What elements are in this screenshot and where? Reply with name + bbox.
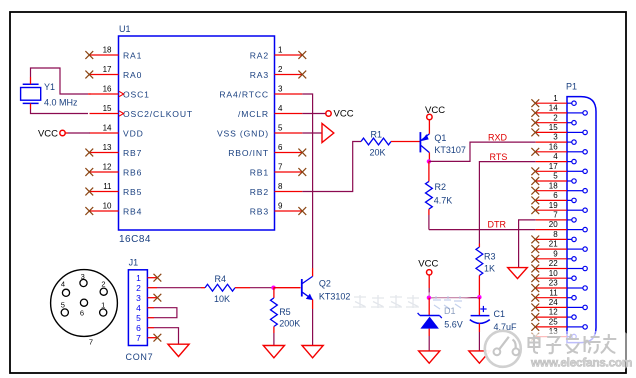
svg-text:www.elecfans.com: www.elecfans.com xyxy=(530,356,632,370)
OSC2 pin edge chevron xyxy=(119,111,124,116)
junction Q1 collector node xyxy=(427,159,431,163)
svg-text:7: 7 xyxy=(89,337,93,346)
ground below J1 xyxy=(168,344,189,356)
ground below Q2 xyxy=(302,346,323,358)
P1 pin 1 circle xyxy=(572,101,576,105)
P1 pin 3 circle xyxy=(572,140,576,144)
zener diode D1 5.6V xyxy=(420,315,440,317)
crystal Y1 bottom plate xyxy=(23,102,39,104)
svg-text:18: 18 xyxy=(103,45,112,54)
resistor R3 xyxy=(476,247,483,276)
svg-text:1: 1 xyxy=(136,273,141,283)
svg-text:VCC: VCC xyxy=(38,128,58,139)
svg-text:1: 1 xyxy=(278,45,283,54)
crystal Y1 top plate xyxy=(23,83,39,85)
OSC1 pin edge chevron xyxy=(119,91,124,96)
U1 pin 10 RB4 wire xyxy=(90,210,119,212)
svg-text:2: 2 xyxy=(553,113,558,122)
U1 pin 8 RB2 wire xyxy=(275,191,303,193)
U1 pin 9 RB3 wire xyxy=(275,210,303,212)
no-connect X on P1 pin 1 xyxy=(531,99,539,107)
svg-text:RB4: RB4 xyxy=(123,206,142,216)
P1 pin 8 wire xyxy=(536,238,567,240)
wire C1 to ground xyxy=(478,323,480,332)
wire crystal bottom to OSC2/CLKOUT xyxy=(30,103,32,109)
svg-text:4: 4 xyxy=(278,104,283,113)
svg-text:6: 6 xyxy=(553,191,558,200)
svg-text:P1: P1 xyxy=(566,82,577,92)
svg-text:21: 21 xyxy=(549,240,558,249)
wire P1 pin4 RTS down to R3 xyxy=(479,162,535,244)
svg-text:5: 5 xyxy=(553,172,558,181)
P1 pin 7 wire xyxy=(536,219,567,221)
no-connect X on P1 pin 6 xyxy=(531,197,539,205)
svg-text:15: 15 xyxy=(549,123,558,132)
wire crystal top to OSC1 xyxy=(30,77,32,84)
svg-text:Q1: Q1 xyxy=(434,133,446,143)
svg-text:6: 6 xyxy=(80,308,84,317)
svg-text:RB5: RB5 xyxy=(123,187,142,197)
P1 pin 15 wire xyxy=(536,131,567,133)
decorative faint watermark (middle) xyxy=(357,291,475,315)
svg-text:17: 17 xyxy=(103,65,112,74)
power port VCC (VDD) xyxy=(60,130,65,135)
no-connect X on P1 pin 12 xyxy=(531,313,539,321)
svg-text:1K: 1K xyxy=(484,263,495,273)
svg-text:2: 2 xyxy=(101,279,105,288)
no-connect X on U1 pin 18 xyxy=(85,51,93,59)
svg-text:R5: R5 xyxy=(279,307,291,317)
P1 pin 21 wire xyxy=(536,248,567,250)
svg-text:R1: R1 xyxy=(371,129,383,139)
P1 pin 1 wire xyxy=(536,102,567,104)
P1 pin 24 circle xyxy=(583,305,587,309)
DIN pin 3 xyxy=(80,279,87,286)
svg-text:RB7: RB7 xyxy=(123,148,142,158)
no-connect X on U1 pin 2 xyxy=(298,71,306,79)
P1 pin 21 circle xyxy=(583,247,587,251)
svg-text:10K: 10K xyxy=(214,294,230,304)
no-connect X on J1 pin 3 xyxy=(154,294,162,302)
U1 pin 16 OSC1 wire xyxy=(90,93,119,95)
svg-text:23: 23 xyxy=(549,279,558,288)
no-connect X on J1 pin 1 xyxy=(154,274,162,282)
wire VCC down to zener node xyxy=(428,275,430,288)
svg-text:RB3: RB3 xyxy=(250,206,269,216)
decorative watermark logo xyxy=(485,331,521,367)
ground below C1 xyxy=(469,351,490,363)
wire R3 to C1 node xyxy=(478,276,480,298)
no-connect X on J1 pin 7 xyxy=(154,334,162,342)
P1 pin 18 wire xyxy=(536,190,567,192)
svg-text:11: 11 xyxy=(549,288,558,297)
wire R2 to DTR line xyxy=(428,209,430,215)
wire node to zener cathode xyxy=(428,298,430,316)
svg-text:2: 2 xyxy=(136,283,141,293)
svg-text:VSS (GND): VSS (GND) xyxy=(217,128,269,138)
U1 pin 7 RB1 wire xyxy=(275,171,303,173)
svg-text:6: 6 xyxy=(278,143,283,152)
svg-text:C1: C1 xyxy=(494,309,506,319)
wire pin5 VSS to power arrow xyxy=(302,132,322,134)
svg-text:RA0: RA0 xyxy=(123,70,142,80)
P1 pin 25 wire xyxy=(536,326,567,328)
no-connect X on P1 pin 13 xyxy=(531,333,539,341)
svg-text:7: 7 xyxy=(278,162,283,171)
svg-text:10: 10 xyxy=(549,269,558,278)
J1 pin 7 stub xyxy=(147,337,157,339)
J1 pin 1 stub xyxy=(147,277,157,279)
no-connect X on P1 pin 17 xyxy=(531,167,539,175)
P1 pin 2 circle xyxy=(572,121,576,125)
no-connect X on P1 pin 18 xyxy=(531,187,539,195)
svg-text:5: 5 xyxy=(278,123,283,132)
svg-text:RA4/RTCC: RA4/RTCC xyxy=(219,89,269,99)
wire P1 pin7 to ground xyxy=(519,220,536,268)
U1 pin 11 RB5 wire xyxy=(90,191,119,193)
svg-text:4.7K: 4.7K xyxy=(434,196,453,206)
svg-text:R2: R2 xyxy=(435,182,447,192)
no-connect X on P1 pin 14 xyxy=(531,109,539,117)
svg-text:KT3102: KT3102 xyxy=(319,292,351,302)
no-connect X on P1 pin 10 xyxy=(531,274,539,282)
no-connect X on P1 pin 9 xyxy=(531,255,539,263)
P1 pin 4 circle xyxy=(572,159,576,163)
wire DTR to P1 pin 20 xyxy=(429,229,536,231)
no-connect X on U1 pin 11 xyxy=(85,188,93,196)
svg-text:5: 5 xyxy=(136,313,141,323)
svg-text:16: 16 xyxy=(103,84,112,93)
svg-text:200K: 200K xyxy=(279,318,300,328)
wire junction to Q2 base xyxy=(274,287,301,289)
wire pin3 RA4/RTCC to Q2 collector xyxy=(302,94,312,268)
DIN pin 1 xyxy=(100,309,107,316)
U1 pin 17 RA0 wire xyxy=(90,74,119,76)
DIN pin 4 xyxy=(62,289,69,296)
svg-text:5.6V: 5.6V xyxy=(444,319,463,329)
P1 pin 11 circle xyxy=(572,296,576,300)
svg-text:18: 18 xyxy=(549,181,558,190)
no-connect X on P1 pin 22 xyxy=(531,265,539,273)
wire R5 to ground xyxy=(273,327,275,334)
connector P1 DB25 shell xyxy=(567,97,596,343)
no-connect X on U1 pin 7 xyxy=(298,168,306,176)
J1 pin 2 wire to R4 xyxy=(147,287,157,289)
P1 pin 22 circle xyxy=(583,266,587,270)
P1 pin 8 circle xyxy=(572,237,576,241)
P1 pin 7 circle xyxy=(572,218,576,222)
no-connect X on P1 pin 15 xyxy=(531,129,539,137)
wire R1 to Q1 base xyxy=(391,141,420,143)
svg-text:1: 1 xyxy=(553,94,558,103)
no-connect X on P1 pin 5 xyxy=(531,177,539,185)
svg-text:OSC1: OSC1 xyxy=(123,89,150,99)
wire into R3 xyxy=(478,244,480,248)
svg-text:3: 3 xyxy=(81,272,85,281)
svg-text:R4: R4 xyxy=(215,274,227,284)
P1 pin 19 wire xyxy=(536,209,567,211)
svg-text:Y1: Y1 xyxy=(44,82,55,92)
wire zener anode to ground xyxy=(428,329,430,336)
svg-text:3: 3 xyxy=(136,293,141,303)
P1 pin 3 wire xyxy=(536,141,567,143)
P1 pin 16 circle xyxy=(583,150,587,154)
connector J1 CON7 body xyxy=(128,270,147,346)
svg-text:7: 7 xyxy=(136,333,141,343)
U1 pin 5 VSS (GND) wire xyxy=(275,132,303,134)
svg-text:12: 12 xyxy=(103,162,112,171)
power arrow symbol (VSS) xyxy=(322,124,334,143)
svg-text:4.0 MHz: 4.0 MHz xyxy=(44,98,78,108)
wire Q1 collector to junction xyxy=(428,153,430,161)
no-connect X on P1 pin 2 xyxy=(531,119,539,127)
wire VCC to VDD pin 14 xyxy=(65,132,68,134)
svg-text:15: 15 xyxy=(103,104,112,113)
transistor Q1 KT3107 (PNP) xyxy=(419,132,421,152)
no-connect X on P1 pin 23 xyxy=(531,284,539,292)
P1 pin 17 wire xyxy=(536,170,567,172)
svg-text:3: 3 xyxy=(553,133,558,142)
P1 pin 22 wire xyxy=(536,268,567,270)
svg-text:J1: J1 xyxy=(129,258,139,268)
wire Q2 emitter to ground xyxy=(312,300,314,309)
svg-text:RXD: RXD xyxy=(488,132,508,142)
P1 pin 24 wire xyxy=(536,306,567,308)
U1 pin 6 RBO/INT wire xyxy=(275,152,303,154)
svg-text:CON7: CON7 xyxy=(126,352,154,362)
P1 pin 17 circle xyxy=(583,169,587,173)
resistor R5 xyxy=(271,298,278,327)
U1 pin 4 /MCLR wire xyxy=(275,113,303,115)
no-connect X on P1 pin 21 xyxy=(531,245,539,253)
U1 pin 1 RA2 wire xyxy=(275,54,303,56)
P1 pin 12 circle xyxy=(572,315,576,319)
P1 pin 20 wire xyxy=(536,229,567,231)
svg-text:10: 10 xyxy=(103,201,112,210)
no-connect X on P1 pin 8 xyxy=(531,236,539,244)
svg-text:RBO/INT: RBO/INT xyxy=(228,148,269,158)
P1 pin 13 wire xyxy=(536,336,567,338)
decorative watermark chinese glyphs xyxy=(529,334,617,353)
U1 pin 2 RA3 wire xyxy=(275,74,303,76)
no-connect X on U1 pin 10 xyxy=(85,207,93,215)
svg-text:2: 2 xyxy=(278,65,283,74)
svg-text:RTS: RTS xyxy=(490,152,508,162)
svg-text:RA3: RA3 xyxy=(250,70,269,80)
svg-text:20: 20 xyxy=(549,220,558,229)
P1 pin 23 wire xyxy=(536,287,567,289)
resistor R1 xyxy=(361,138,391,145)
no-connect X on P1 pin 19 xyxy=(531,206,539,214)
svg-text:1: 1 xyxy=(101,300,105,309)
svg-text:22: 22 xyxy=(549,259,558,268)
DIN pin 2 xyxy=(100,288,107,295)
capacitor C1 (polarized) xyxy=(471,315,490,317)
no-connect X on U1 pin 1 xyxy=(298,51,306,59)
svg-text:OSC2/CLKOUT: OSC2/CLKOUT xyxy=(123,109,193,119)
transistor Q2 KT3102 (NPN) xyxy=(301,279,303,297)
svg-text:RB1: RB1 xyxy=(250,167,269,177)
svg-text:D1: D1 xyxy=(444,306,456,316)
P1 pin 11 wire xyxy=(536,297,567,299)
P1 pin 9 circle xyxy=(572,257,576,261)
svg-text:3: 3 xyxy=(278,84,283,93)
svg-text:11: 11 xyxy=(103,182,112,191)
P1 pin 15 circle xyxy=(583,130,587,134)
IC U1 16C84 body xyxy=(119,36,275,230)
P1 pin 20 circle xyxy=(583,227,587,231)
svg-text:16: 16 xyxy=(549,142,558,151)
svg-text:4: 4 xyxy=(61,279,65,288)
P1 pin 14 circle xyxy=(583,111,587,115)
P1 pin 18 circle xyxy=(583,189,587,193)
svg-text:RB6: RB6 xyxy=(123,167,142,177)
wire node to C1 top xyxy=(478,297,480,315)
svg-text:16C84: 16C84 xyxy=(119,234,151,245)
P1 pin 5 circle xyxy=(572,179,576,183)
P1 pin 13 circle xyxy=(572,334,576,338)
P1 pin 12 wire xyxy=(536,316,567,318)
svg-text:R3: R3 xyxy=(484,251,496,261)
power port VCC (/MCLR) xyxy=(326,111,331,116)
svg-text:KT3107: KT3107 xyxy=(434,145,466,155)
svg-text:Q2: Q2 xyxy=(319,278,331,288)
svg-text:19: 19 xyxy=(549,201,558,210)
P1 pin 6 wire xyxy=(536,199,567,201)
no-connect X on P1 pin 16 xyxy=(531,148,539,156)
svg-text:DTR: DTR xyxy=(488,220,507,230)
resistor R4 xyxy=(205,284,235,291)
crystal Y1 body xyxy=(21,88,41,101)
U1 pin 13 RB7 wire xyxy=(90,152,119,154)
svg-text:4: 4 xyxy=(553,152,558,161)
svg-text:13: 13 xyxy=(103,143,112,152)
P1 pin 14 wire xyxy=(536,112,567,114)
P1 pin 9 wire xyxy=(536,258,567,260)
ground below D1 xyxy=(419,351,440,363)
wire VCC to Q1 emitter xyxy=(428,120,430,134)
svg-text:9: 9 xyxy=(553,249,558,258)
no-connect X on U1 pin 17 xyxy=(85,71,93,79)
U1 pin 3 RA4/RTCC wire xyxy=(275,93,303,95)
svg-text:4: 4 xyxy=(136,303,141,313)
svg-text:9: 9 xyxy=(278,201,283,210)
svg-text:RA2: RA2 xyxy=(250,50,269,60)
U1 pin 14 VDD wire xyxy=(90,132,119,134)
svg-text:8: 8 xyxy=(278,182,283,191)
no-connect X on U1 pin 9 xyxy=(298,207,306,215)
svg-text:14: 14 xyxy=(103,123,112,132)
svg-text:RA1: RA1 xyxy=(123,50,142,60)
svg-text:VCC: VCC xyxy=(418,259,438,270)
svg-text:20K: 20K xyxy=(370,147,386,157)
no-connect X on U1 pin 6 xyxy=(298,149,306,157)
svg-text:VDD: VDD xyxy=(123,128,144,138)
svg-text:24: 24 xyxy=(549,298,558,307)
J1 pin 3 stub xyxy=(147,297,157,299)
U1 pin 12 RB6 wire xyxy=(90,171,119,173)
no-connect X on U1 pin 13 xyxy=(85,149,93,157)
P1 pin 5 wire xyxy=(536,180,567,182)
no-connect X on P1 pin 25 xyxy=(531,323,539,331)
svg-text:5: 5 xyxy=(61,300,65,309)
svg-text:8: 8 xyxy=(553,230,558,239)
svg-text:14: 14 xyxy=(549,104,558,113)
J1 pins 4-5 jumper wire xyxy=(147,307,154,309)
P1 pin 10 circle xyxy=(572,276,576,280)
P1 pin 6 circle xyxy=(572,198,576,202)
J1 pin 6 wire to ground xyxy=(147,327,154,329)
junction dot zener node xyxy=(427,296,431,300)
P1 pin 16 wire xyxy=(536,151,567,153)
wire zener node to C1 node xyxy=(429,297,480,299)
P1 pin 2 wire xyxy=(536,122,567,124)
wire junction to R2 xyxy=(428,161,430,181)
wire junction down to R5 xyxy=(273,288,275,298)
U1 pin 18 RA1 wire xyxy=(90,54,119,56)
svg-text:6: 6 xyxy=(136,323,141,333)
wire Q1 collector to P1 pin3 RXD xyxy=(429,142,536,161)
svg-text:RB2: RB2 xyxy=(250,187,269,197)
DIN connector face (circle) xyxy=(51,270,118,337)
svg-text:17: 17 xyxy=(549,162,558,171)
no-connect X on P1 pin 11 xyxy=(531,294,539,302)
svg-text:12: 12 xyxy=(549,308,558,317)
wire pin4 /MCLR to VCC xyxy=(302,113,326,115)
svg-text:VCC: VCC xyxy=(334,109,354,120)
svg-text:U1: U1 xyxy=(119,24,131,34)
svg-text:7: 7 xyxy=(553,211,558,220)
P1 pin 10 wire xyxy=(536,277,567,279)
wire pin8 RB2 to R1 xyxy=(302,142,361,192)
no-connect X on P1 pin 24 xyxy=(531,304,539,312)
svg-text:/MCLR: /MCLR xyxy=(238,109,269,119)
wire R4 to junction xyxy=(235,287,250,289)
junction dot C1 node xyxy=(477,295,481,299)
P1 pin 4 wire xyxy=(536,161,567,163)
P1 pin 19 circle xyxy=(583,208,587,212)
DIN pin 6 (center) xyxy=(80,299,87,306)
DIN pin 5 xyxy=(61,309,68,316)
no-connect X on U1 pin 12 xyxy=(85,168,93,176)
junction R4/R5/Q2 base xyxy=(271,286,275,290)
P1 pin 23 circle xyxy=(583,286,587,290)
decorative watermark backing wash xyxy=(487,331,629,370)
ground below P1 pin7 xyxy=(508,268,528,279)
svg-text:25: 25 xyxy=(549,318,558,327)
U1 pin 15 OSC2/CLKOUT wire xyxy=(90,113,119,115)
ground below R5 xyxy=(263,346,284,358)
P1 pin 25 circle xyxy=(583,325,587,329)
resistor R2 xyxy=(426,181,433,209)
